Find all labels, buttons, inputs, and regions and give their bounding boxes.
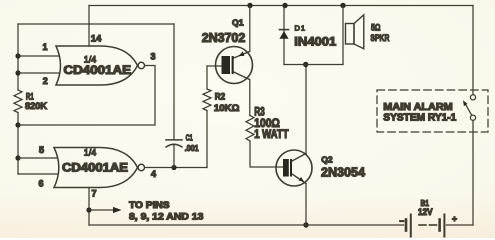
wire: R3 bottom to Q2 base	[250, 141, 283, 167]
transistor Q2 2N3054 (NPN)	[276, 150, 312, 186]
svg-text:3: 3	[150, 52, 155, 62]
svg-text:10KΩ: 10KΩ	[214, 103, 240, 114]
svg-text:C1: C1	[186, 133, 193, 143]
svg-text:SPKR: SPKR	[370, 33, 389, 44]
wire: pin 2 input stub	[18, 72, 59, 74]
capacitor C1 .001	[173, 24, 175, 140]
transistor Q1 2N3702 (PNP)	[216, 47, 253, 84]
svg-text:7: 7	[91, 189, 96, 199]
svg-text:CD4001AE: CD4001AE	[62, 163, 128, 175]
svg-text:2N3702: 2N3702	[202, 31, 246, 45]
svg-text:Q1: Q1	[232, 18, 244, 28]
wire: bottom rail right of battery	[446, 224, 473, 226]
svg-text:5Ω: 5Ω	[371, 23, 381, 34]
resistor R1 820K	[14, 90, 22, 113]
wire: Q1 emitter up to top rail	[249, 6, 251, 52]
wire: pin 4 output line to R2 bottom	[145, 167, 207, 169]
svg-text:8, 9, 12 AND 13: 8, 9, 12 AND 13	[129, 212, 203, 223]
wire: Q2 collector up to D1/speaker line	[305, 65, 307, 154]
wire: Q2 emitter down to bottom rail	[305, 184, 307, 226]
wire: pin 7 down from U1b	[88, 188, 90, 226]
relay contact RY1-1	[470, 95, 475, 100]
wire: left rail lower segment from R1 to pin 6	[17, 113, 19, 175]
svg-text:D1: D1	[295, 24, 307, 33]
svg-text:MAIN ALARM: MAIN ALARM	[383, 102, 452, 113]
svg-text:SYSTEM RY1-1: SYSTEM RY1-1	[383, 113, 456, 124]
wire: Q1 collector down to R3	[249, 80, 251, 116]
svg-text:1/4: 1/4	[84, 55, 97, 65]
node: feedback junction at left rail	[15, 122, 20, 127]
resistor R3 100 ohm 1 WATT	[246, 116, 254, 142]
wire: right vertical from top rail to relay contact	[472, 6, 474, 95]
svg-text:IN4001: IN4001	[294, 35, 336, 49]
wire: +V top rail	[89, 5, 473, 7]
svg-text:R2: R2	[215, 92, 225, 102]
svg-text:14: 14	[91, 34, 102, 45]
wire: relay lower contact down to bottom rail	[472, 120, 474, 225]
wire: bottom rail left of battery	[89, 224, 404, 226]
battery B1 12V	[405, 220, 408, 231]
node: pin 5 junction	[15, 155, 20, 160]
wire: pin 3 output feedback down and across to left rail	[18, 66, 155, 126]
speaker SPKR 5 ohm	[342, 6, 344, 65]
wire: arrow to pins 8,9,12,13	[89, 209, 115, 211]
svg-text:2N3054: 2N3054	[321, 166, 365, 180]
svg-text:R3: R3	[254, 107, 265, 119]
wire: feedback line from C1 top across to left rail	[18, 23, 174, 25]
node: pin 2 junction	[15, 70, 20, 75]
main alarm system dashed box	[377, 90, 488, 132]
NOR gate U1b CD4001AE	[54, 148, 145, 188]
node: speaker junction on top rail	[340, 3, 345, 8]
wire: pin 14 of U1 to top rail	[88, 6, 90, 47]
node: Q2 emitter junction on bottom rail	[303, 222, 308, 227]
wire: bottom line of D1/speaker branch	[284, 64, 343, 66]
resistor R2 10K	[206, 111, 208, 168]
wire: R2 top to Q1 base	[207, 65, 222, 67]
svg-text:2: 2	[43, 76, 48, 86]
svg-text:12V: 12V	[418, 207, 433, 217]
svg-text:5: 5	[39, 145, 44, 155]
svg-text:Q2: Q2	[321, 155, 333, 165]
svg-text:1: 1	[42, 42, 47, 52]
svg-text:1 WATT: 1 WATT	[254, 129, 288, 141]
svg-text:4: 4	[151, 169, 156, 179]
diode D1 IN4001	[283, 6, 285, 65]
wire: left rail upper segment to R1	[17, 24, 19, 90]
svg-text:–: –	[400, 217, 405, 226]
node: C1 bottom junction	[171, 165, 176, 170]
node: pin 1 junction	[15, 53, 20, 58]
wire: pin 5 input stub	[18, 157, 57, 159]
wire: pin 1 input stub	[18, 55, 59, 57]
svg-text:6: 6	[38, 179, 43, 189]
node: pin 7 junction	[86, 207, 91, 212]
svg-text:820K: 820K	[25, 101, 47, 112]
svg-text:CD4001AE: CD4001AE	[64, 65, 132, 77]
node: Q2 collector junction	[303, 62, 308, 67]
node: D1 junction on top rail	[282, 3, 287, 8]
svg-text:+: +	[452, 214, 457, 224]
wire: pin 6 input stub	[18, 173, 57, 175]
svg-text:.001: .001	[185, 143, 199, 153]
node: Q1 emitter junction on top rail	[247, 3, 252, 8]
svg-text:TO PINS: TO PINS	[129, 200, 170, 211]
NOR gate U1a CD4001AE	[56, 46, 145, 85]
svg-text:1/4: 1/4	[84, 148, 97, 158]
